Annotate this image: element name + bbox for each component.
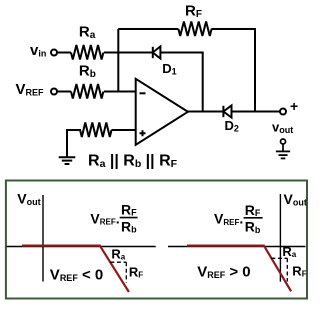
svg-text:VREF < 0: VREF < 0 <box>50 267 103 284</box>
svg-text:VREF.: VREF. <box>90 211 119 227</box>
svg-text:RF: RF <box>292 263 306 278</box>
svg-text:Rb: Rb <box>245 219 261 235</box>
svg-text:+: + <box>290 98 298 114</box>
svg-text:VREF > 0: VREF > 0 <box>197 263 250 280</box>
svg-text:D1: D1 <box>162 61 176 77</box>
svg-text:VREF: VREF <box>16 81 45 98</box>
svg-text:RF: RF <box>129 265 143 280</box>
svg-text:vin: vin <box>30 42 46 59</box>
svg-text:Ra: Ra <box>111 247 125 262</box>
svg-text:Rb: Rb <box>121 219 137 235</box>
svg-text:RF: RF <box>245 202 261 218</box>
svg-text:Vout: Vout <box>284 191 307 208</box>
svg-text:Ra || Rb || RF: Ra || Rb || RF <box>88 152 178 170</box>
svg-text:Ra: Ra <box>79 23 96 41</box>
svg-text:RF: RF <box>185 3 202 21</box>
svg-text:vout: vout <box>272 119 293 135</box>
svg-text:Rb: Rb <box>79 63 96 81</box>
svg-text:VREF.: VREF. <box>214 211 243 227</box>
svg-text:D2: D2 <box>225 118 239 134</box>
svg-text:Vout: Vout <box>17 191 40 208</box>
svg-text:RF: RF <box>121 202 137 218</box>
